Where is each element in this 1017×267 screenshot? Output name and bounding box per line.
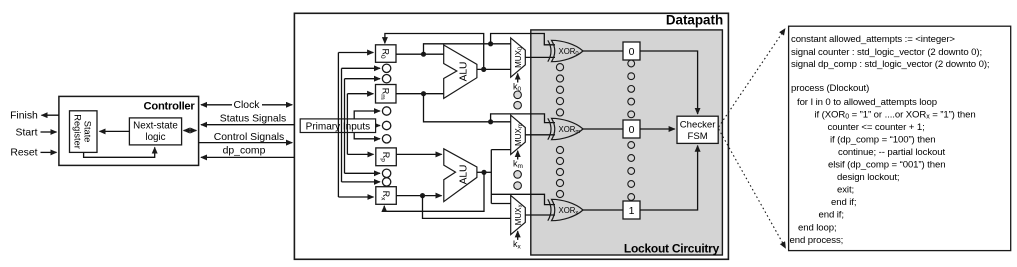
wire vertical to MUXm bottom and MUXx top [490,150,492,204]
wire feedback to R0 top [385,34,484,70]
svg-text:end if;: end if; [831,197,856,208]
circle row1b [382,75,390,83]
wire branch to Rm [347,93,373,95]
svg-text:if (XOR0 = ”1” or ....or XORx: if (XOR0 = ”1” or ....or XORx = ”1”) the… [815,109,976,120]
svg-text:if (dp_comp = “100”) then: if (dp_comp = “100”) then [830,134,936,145]
xor gate XORx [548,199,583,220]
wire const0 row1 to checker fsm top [640,51,698,114]
status signals [201,114,294,125]
node R0 out [421,52,426,57]
const column circles segment A [628,60,635,118]
xor column circles segment A [556,64,563,116]
next-state logic [129,118,181,145]
lockout circuitry gray box [531,30,723,256]
wire XORm to const box [583,128,623,130]
primary inputs box [300,119,375,133]
svg-text:Reset: Reset [10,148,37,159]
const box 0 row2 [623,120,640,138]
control signals [199,132,293,143]
wire R0 output to ALU1 [396,53,444,55]
circle below primary inputs [382,135,390,143]
callout dotted line top [719,29,785,127]
svg-text:design lockout;: design lockout; [837,172,900,183]
wire Rm out riser to MUXm top input [424,94,511,122]
clock signal [201,100,292,111]
mux MUXx [511,195,526,234]
wire branch to circle row1b [345,78,381,80]
register Rm [376,85,397,104]
svg-text:Start: Start [16,127,38,138]
wire bus line 2 [341,68,343,182]
code text [790,34,990,246]
wire reset [41,151,57,153]
circle row1a [382,64,390,72]
svg-text:continue; -- partial lockout: continue; -- partial lockout [838,147,945,158]
svg-text:Datapath: Datapath [666,13,723,28]
svg-text:Finish: Finish [10,110,38,121]
wire XORx to const box [583,209,623,211]
wire Rx out riser to MUXx bottom input [423,196,511,219]
node MUXm top input junction [488,119,493,124]
svg-text:1: 1 [629,205,635,217]
wire start [41,131,57,133]
node ALU1 out [481,67,486,72]
svg-text:end loop;: end loop; [798,222,837,233]
wire ALU2 output across [477,171,491,173]
svg-text:constant allowed_attempts := <: constant allowed_attempts := <integer> [791,34,955,45]
svg-text:dp_comp: dp_comp [223,145,266,156]
mux MUXm [511,115,526,154]
wire Rp output to ALU2 [396,153,441,155]
svg-text:0: 0 [629,124,635,136]
svg-text:Checker: Checker [680,120,717,131]
wire Rm output to ALU1 [396,93,444,95]
const box 0 row1 [623,42,640,60]
dp_comp signal [201,145,294,157]
wire branch to Rx [338,196,373,198]
wire const0 row2 to checker fsm left [640,128,675,130]
wire bus line 4 [346,94,348,155]
svg-text:process (Dlockout): process (Dlockout) [791,83,869,94]
svg-text:0: 0 [629,46,635,58]
wire branch to circle row3a [345,172,381,174]
svg-text:Next-state: Next-state [133,121,178,132]
wire Rx output to ALU2 [396,195,441,197]
circle k column b [514,101,522,109]
circle row3b [382,178,390,186]
mux MUX0 [511,38,526,77]
xor gate XOR0 [548,40,583,61]
ALU U2 [444,149,477,202]
wire branch to R0 [338,52,373,54]
state register [70,111,98,153]
node ALU2 out [481,170,486,175]
svg-text:Clock: Clock [234,100,261,111]
xor column circles segment B [556,146,563,197]
circle k column d [514,182,522,190]
wire ALU2 feedback to Rx bottom [384,172,484,211]
circle row3a [382,169,390,177]
circle k column a [514,91,522,99]
svg-text:Lockout Circuitry: Lockout Circuitry [624,242,720,256]
svg-text:counter <= counter + 1;: counter <= counter + 1; [828,122,925,133]
wire ALU1 output to MUX0 [477,68,511,70]
ALU U1 [444,45,477,98]
wire branch to Rp [347,153,373,155]
controller box [59,96,199,165]
node Rm out [421,91,426,96]
code box [789,26,1011,250]
register Rx [376,187,397,205]
wire next-state to state register [100,130,130,132]
svg-text:end process;: end process; [790,235,844,246]
checker FSM box [677,116,718,143]
svg-text:elsif (dp_comp = “001”) then: elsif (dp_comp = “001”) then [828,160,945,171]
wire junction up to XOR0 top input [491,34,555,45]
wire MUX0 output to XOR0 [525,56,555,58]
wire next-state to controller edge double arrow [190,130,196,132]
svg-text:Controller: Controller [144,101,196,113]
wire MUXx output to XORx [525,214,555,216]
svg-text:ALU: ALU [459,62,470,82]
svg-text:Status Signals: Status Signals [220,114,286,125]
wire branch to circle row1a [342,67,381,69]
svg-text:MUXx: MUXx [514,204,524,225]
svg-text:for I in 0 to allowed_attempts: for I in 0 to allowed_attempts loop [797,97,937,108]
svg-text:logic: logic [145,132,165,143]
circle k column c [514,171,522,179]
select k0 [513,74,522,94]
register R0 [376,45,397,63]
node MUX0 top input junction [488,41,493,46]
register Rp [376,148,397,166]
wire branch to circle row3b [342,181,381,183]
wire R0 out riser to MUX0 top input [424,44,511,54]
wire to XORx top input [491,194,555,204]
wire junction up to XORm top input [491,114,555,123]
wire state register feedback to next-state logic [84,147,155,157]
wire branch from primary inputs to side circle [376,125,380,127]
select kx [513,231,522,250]
circle beside primary inputs [382,121,390,129]
svg-text:Control Signals: Control Signals [214,132,284,143]
datapath box [294,13,728,260]
svg-text:FSM: FSM [687,131,707,142]
const box 1 row3 [623,201,640,219]
circle above primary inputs [382,107,390,115]
wire finish [42,114,59,116]
select km [513,151,523,170]
wire branch to circle below primary inputs [354,133,380,139]
wire branch to circle above primary inputs [354,111,380,119]
node Rx out [420,193,425,198]
svg-text:signal counter : std_logic_vec: signal counter : std_logic_vector (2 dow… [791,47,982,58]
svg-text:ALU: ALU [459,165,470,185]
wire XOR0 to const box [583,50,623,52]
svg-text:exit;: exit; [837,185,854,196]
wire MUXm output to XORm [525,134,555,136]
xor gate XORm [548,118,583,139]
const column circles segment B [628,142,635,201]
svg-text:signal dp_comp : std_logic_vec: signal dp_comp : std_logic_vector (2 dow… [791,59,989,70]
svg-text:end if;: end if; [819,210,844,221]
wire bus line 3 [344,79,346,174]
wire bus line 1 [337,53,339,198]
svg-text:Primary Inputs: Primary Inputs [306,121,370,132]
wire const1 row3 to checker fsm bottom [640,146,698,210]
callout dotted line bottom [719,129,786,248]
